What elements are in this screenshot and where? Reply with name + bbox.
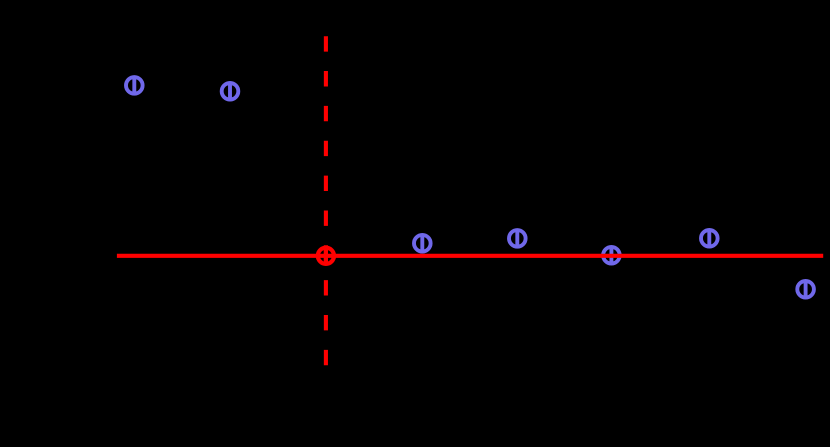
- data point P6: [701, 229, 718, 248]
- origin point O: [318, 246, 334, 265]
- vertical dashed asymptote: [324, 36, 328, 365]
- x-axis line: [117, 254, 823, 258]
- data point P1: [126, 76, 143, 95]
- data point P2: [222, 82, 239, 101]
- data point P3: [414, 234, 431, 253]
- data point P4: [509, 229, 526, 248]
- data point P7: [797, 280, 814, 299]
- data point P5: [603, 246, 620, 265]
